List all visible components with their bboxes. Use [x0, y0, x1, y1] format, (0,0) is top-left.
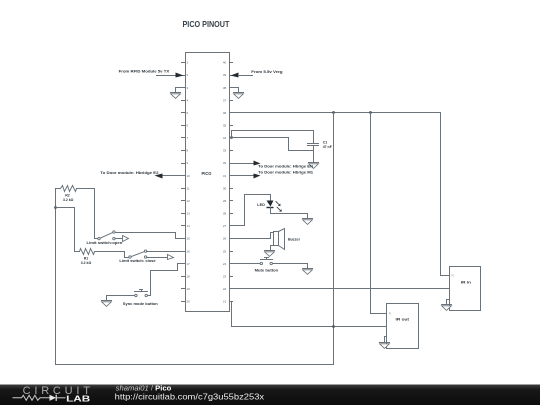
- pin 10 stub and number: [182, 174, 191, 178]
- svg-text:R1: R1: [84, 256, 89, 260]
- svg-text:21: 21: [223, 300, 227, 304]
- svg-text:Sync mode button: Sync mode button: [123, 302, 158, 306]
- pin 14 stub and number: [182, 224, 191, 228]
- pin 26 stub and number: [223, 237, 233, 241]
- svg-text:26: 26: [223, 237, 227, 241]
- label Limit switch:open: [87, 241, 123, 245]
- net label From 5.5v Vreg: [251, 69, 283, 74]
- pin 25 stub and number: [223, 249, 233, 253]
- output arrow pin 10: [155, 174, 163, 179]
- ground at pin 38: [233, 93, 244, 99]
- wire pin 22 to IR in middle pin: [230, 288, 450, 290]
- pin 27 stub and number: [223, 224, 233, 228]
- net label From RFID Module 5v TX: [119, 69, 170, 74]
- pin 39 stub and number: [223, 73, 233, 77]
- wire switch close throw to pin 16: [147, 251, 186, 253]
- svg-text:11: 11: [187, 186, 190, 190]
- wire IR in ground pin: [447, 300, 450, 305]
- svg-text:From 5.5v Vreg: From 5.5v Vreg: [251, 69, 283, 74]
- svg-text:14: 14: [187, 224, 191, 228]
- pin 38 stub and number: [223, 86, 233, 90]
- pin 12 stub and number: [182, 199, 191, 203]
- wire buzzer to ground: [271, 246, 274, 251]
- junction node rail A top: [332, 111, 335, 114]
- CircuitLab logo art and LAB: [13, 394, 91, 403]
- wire pin 32 out: [230, 163, 254, 165]
- wire pin 10 out: [162, 175, 186, 177]
- pin 9 stub and number: [182, 161, 189, 165]
- pin 5 stub and number: [182, 111, 189, 115]
- pin 22 stub and number: [223, 287, 233, 291]
- CircuitLab logo text CIRCUIT: [23, 385, 91, 397]
- wire IR out ground pin: [385, 337, 387, 343]
- junction node rail A bottom: [332, 325, 335, 328]
- wire mute button to ground: [273, 264, 308, 269]
- svg-text:3.2 kΩ: 3.2 kΩ: [81, 261, 92, 265]
- wire pin 24 to mute button: [230, 263, 261, 265]
- svg-text:33: 33: [223, 149, 227, 153]
- svg-text:19: 19: [187, 287, 191, 291]
- svg-text:47 nF: 47 nF: [323, 145, 333, 149]
- svg-text:Limit switch:open: Limit switch:open: [87, 241, 123, 245]
- wire switch close NC to arrow: [147, 257, 168, 259]
- label Sync mode button: [123, 302, 158, 306]
- buzzer SP1 speaker: [274, 229, 285, 250]
- junction node at pin 34: [230, 136, 233, 139]
- input arrow into pin 39: [231, 73, 239, 78]
- svg-text:36: 36: [223, 111, 227, 115]
- wire from 5.5v Vreg to pin 39: [239, 75, 253, 77]
- resistor R2: [56, 186, 95, 192]
- svg-text:To Door module: Hbridge E2: To Door module: Hbridge E2: [100, 170, 159, 175]
- switch SW1 limit switch close: [129, 250, 147, 258]
- resistor R1: [75, 249, 125, 255]
- svg-text:15: 15: [187, 237, 191, 241]
- pin 24 stub and number: [223, 262, 233, 266]
- capacitor C1: [308, 144, 319, 146]
- svg-text:34: 34: [223, 136, 227, 140]
- wire sync button to ground: [107, 296, 135, 301]
- svg-text:27: 27: [223, 224, 227, 228]
- wire C1 bottom to ground: [313, 146, 315, 163]
- svg-text:IR in: IR in: [461, 280, 471, 284]
- wire left rail vertical from R2 down: [55, 189, 57, 365]
- svg-text:Mute button: Mute button: [255, 269, 279, 273]
- svg-text:30: 30: [223, 186, 227, 190]
- svg-text:29: 29: [223, 199, 227, 203]
- svg-text:22: 22: [223, 287, 227, 291]
- ground at sync button: [101, 301, 112, 307]
- footer url line: [115, 393, 264, 402]
- wire pin 21 to IR out middle pin: [230, 302, 387, 327]
- svg-text:35: 35: [223, 124, 227, 128]
- pin 4 stub and number: [182, 98, 189, 102]
- svg-text:10: 10: [187, 174, 191, 178]
- svg-text:38: 38: [223, 86, 227, 90]
- pin 29 stub and number: [223, 199, 233, 203]
- footer author line shamai01 / Pico: [116, 384, 172, 393]
- svg-text:17: 17: [187, 262, 191, 266]
- net label To Door module: Hbrige EN: [258, 164, 313, 169]
- switch SW2 limit switch open: [98, 231, 115, 240]
- svg-text:From RFID Module 5v TX: From RFID Module 5v TX: [119, 69, 170, 74]
- output arrow pin 31: [254, 174, 261, 179]
- op-amp U1 Pico IC body: [186, 53, 230, 312]
- R1 value label 3.2 kOhm: [81, 256, 92, 265]
- wire vertical rail B to IR out P1: [371, 113, 387, 314]
- output arrow pin 32: [254, 161, 261, 166]
- svg-text:LAB: LAB: [66, 394, 90, 403]
- footer bar: [0, 385, 540, 405]
- svg-text:32: 32: [223, 161, 227, 165]
- pin 35 stub and number: [223, 124, 233, 128]
- pin 7 stub and number: [182, 136, 189, 140]
- svg-text:24: 24: [223, 262, 227, 266]
- svg-text:20: 20: [187, 300, 191, 304]
- pin 3 stub and number: [182, 86, 189, 90]
- pin 15 stub and number: [182, 237, 191, 241]
- svg-text:PICO: PICO: [202, 171, 213, 176]
- svg-text:23: 23: [223, 275, 227, 279]
- svg-text:shamai01 / Pico: shamai01 / Pico: [116, 384, 172, 393]
- net label To Door module: Hbridge E2: [100, 170, 159, 175]
- R2 value label 3.2 kOhm: [63, 193, 74, 202]
- wire vertical rail A down to bottom rail: [333, 113, 335, 365]
- wire pin 36 rail to IR in P1: [230, 113, 450, 276]
- LED D1: [267, 201, 274, 208]
- pin 23 stub and number: [223, 275, 233, 279]
- LED light emission arrows: [276, 201, 282, 212]
- svg-text:R2: R2: [65, 193, 70, 197]
- IR in module box: [450, 267, 481, 311]
- wire pin 38 to ground: [230, 88, 239, 93]
- wire pin 26 to buzzer: [230, 233, 274, 239]
- svg-text:Limit switch: close: Limit switch: close: [119, 259, 155, 263]
- pin 6 stub and number: [182, 124, 189, 128]
- wire switch open NC to arrow: [116, 238, 123, 240]
- svg-text:12: 12: [187, 199, 191, 203]
- pin 30 stub and number: [223, 186, 233, 190]
- pushbutton mute button: [260, 258, 272, 265]
- ground below C1: [308, 163, 319, 169]
- pin 28 stub and number: [223, 212, 233, 216]
- wire switch open common to pin 15: [116, 233, 186, 239]
- pin 21 stub and number: [223, 300, 233, 304]
- pin 11 stub and number: [182, 186, 190, 190]
- svg-text:37: 37: [223, 98, 227, 102]
- svg-text:40: 40: [223, 61, 227, 65]
- svg-text:18: 18: [187, 275, 191, 279]
- IR out module box: [387, 304, 419, 349]
- svg-text:3.2 kΩ: 3.2 kΩ: [63, 198, 74, 202]
- wire pin 31 out: [230, 175, 254, 177]
- ground at IR out: [379, 343, 390, 349]
- input arrow into pin 2: [176, 73, 184, 78]
- wire pin 34 to C1 bottom: [232, 138, 314, 151]
- pin 19 stub and number: [182, 287, 191, 291]
- junction node rail B top: [369, 111, 372, 114]
- svg-text:Buzzer: Buzzer: [288, 238, 301, 242]
- label Buzzer: [288, 238, 301, 242]
- open arrow at switch close NC: [168, 255, 174, 260]
- junction node on left rail: [54, 206, 57, 209]
- svg-text:39: 39: [223, 73, 227, 77]
- pin 2 stub and number: [182, 73, 189, 77]
- wire R1 to limit switch close: [125, 252, 129, 258]
- net label To Door module: Hbrige M1: [258, 170, 314, 175]
- pin 8 stub and number: [182, 149, 189, 153]
- ground at IR in: [441, 305, 452, 311]
- label LED: [257, 203, 265, 207]
- pin 18 stub and number: [182, 275, 191, 279]
- pin 1 stub and number: [182, 61, 189, 65]
- label Limit switch: close: [119, 259, 155, 263]
- ground at LED: [302, 219, 313, 225]
- pin 34 stub and number: [223, 136, 233, 140]
- wire branch from left rail to R1: [56, 208, 75, 252]
- svg-text:13: 13: [187, 212, 191, 216]
- svg-text:16: 16: [187, 249, 191, 253]
- wire from RFID module to pin 2: [157, 75, 177, 77]
- svg-text:31: 31: [223, 174, 227, 178]
- svg-text:25: 25: [223, 249, 227, 253]
- svg-text:PICO PINOUT: PICO PINOUT: [183, 19, 231, 29]
- wire pin 27 to LED anode: [230, 195, 271, 226]
- wire LED cathode to ground: [271, 208, 308, 219]
- pin 17 stub and number: [182, 262, 191, 266]
- wire bottom rail horizontal: [56, 364, 334, 366]
- wire pin 34 to C1 top: [232, 131, 314, 144]
- svg-text:http://circuitlab.com/c7g3u55b: http://circuitlab.com/c7g3u55bz253x: [115, 393, 264, 402]
- C1 value label 47 nF: [323, 140, 333, 148]
- pin 37 stub and number: [223, 98, 233, 102]
- open arrow at switch open NC: [123, 236, 129, 242]
- ground at pin 3: [170, 93, 181, 99]
- label Mute button: [255, 269, 279, 273]
- svg-text:28: 28: [223, 212, 227, 216]
- pin 40 stub and number: [223, 61, 233, 65]
- svg-text:C1: C1: [323, 140, 328, 144]
- pushbutton sync mode button: [135, 290, 148, 297]
- ground at mute button: [302, 269, 313, 275]
- svg-text:LED: LED: [257, 203, 265, 207]
- wire pin 17 to sync mode button: [148, 264, 186, 296]
- pin 16 stub and number: [182, 249, 191, 253]
- svg-text:IR out: IR out: [396, 318, 411, 322]
- pin 13 stub and number: [182, 212, 191, 216]
- pin 33 stub and number: [223, 149, 233, 153]
- wire R2 to limit switch open: [95, 189, 98, 239]
- pin 20 stub and number: [182, 300, 191, 304]
- ground at buzzer: [264, 251, 275, 257]
- svg-text:To Door module: Hbrige EN: To Door module: Hbrige EN: [258, 164, 313, 169]
- pin 31 stub and number: [223, 174, 233, 178]
- svg-text:To Door module: Hbrige M1: To Door module: Hbrige M1: [258, 170, 314, 175]
- pin 36 stub and number: [223, 111, 233, 115]
- pin 32 stub and number: [223, 161, 233, 165]
- wire pin 3 to ground: [176, 88, 186, 93]
